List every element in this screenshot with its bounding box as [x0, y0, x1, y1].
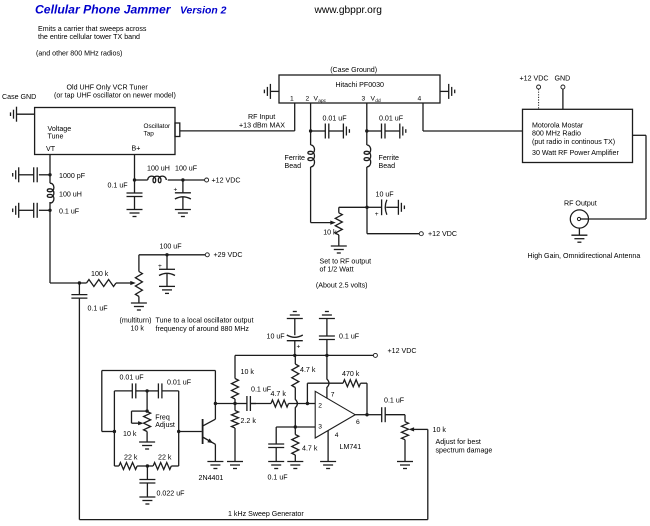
label Freq Adjust [155, 414, 175, 430]
svg-text:22 k: 22 k [124, 453, 138, 461]
svg-text:Case GND: Case GND [2, 93, 36, 101]
label 0.1 uF coupling [251, 385, 272, 393]
node: inverting input junction [306, 402, 309, 405]
annotation: Adjust for best spectrum damage [436, 438, 493, 455]
svg-text:Tune to a local oscillator out: Tune to a local oscillator output [156, 316, 254, 324]
wire: VT line down to tuning node [50, 210, 79, 283]
svg-text:Emits a carrier that sweeps ac: Emits a carrier that sweeps across [38, 25, 147, 33]
resistor 22 k left [114, 453, 147, 469]
svg-text:the entire cellular tower TX b: the entire cellular tower TX band [38, 33, 140, 41]
svg-text:10 k: 10 k [123, 430, 137, 438]
ground above 0.1uF sweep [319, 312, 335, 319]
ground below pin 4 [320, 462, 336, 469]
terminal +12 VDC at B+ [205, 176, 241, 184]
svg-text:frequency of around 880 MHz: frequency of around 880 MHz [156, 325, 250, 333]
amplifier block Motorola Mostar [523, 109, 633, 162]
svg-text:6: 6 [356, 419, 360, 426]
wire: oscillator inner left vertical [113, 391, 115, 466]
svg-text:spectrum damage: spectrum damage [436, 446, 493, 454]
svg-text:0.01 uF: 0.01 uF [379, 114, 404, 122]
capacitor 0.1 uF sweep bypass [319, 319, 335, 356]
svg-text:Old UHF Only VCR Tuner: Old UHF Only VCR Tuner [67, 83, 149, 91]
wire: base tap to transistor base [179, 431, 202, 433]
svg-text:1000 pF: 1000 pF [59, 172, 86, 180]
node: VT / 1000 pF junction [48, 173, 51, 176]
label 0.01 uF first [120, 373, 145, 381]
label (Case Ground) [330, 66, 377, 74]
svg-text:+12 VDC: +12 VDC [428, 230, 457, 238]
title text: Version 2 [180, 6, 227, 17]
wire: B+ pin down [134, 155, 136, 181]
VCR tuner box U1 [35, 108, 175, 155]
capacitor 0.01 uF at pin 2 [311, 114, 350, 138]
label Case GND [2, 93, 36, 101]
svg-text:of 1/2 Watt: of 1/2 Watt [320, 265, 354, 273]
svg-text:4: 4 [335, 432, 339, 439]
wire: to output pot top [404, 415, 406, 422]
wire: sweep feedback bottom run [79, 519, 427, 521]
svg-text:100 uF: 100 uF [175, 164, 198, 172]
transistor Q1 2N4401 [199, 404, 224, 482]
label RF Output [564, 199, 597, 207]
wire: amplifier output to RF connector [588, 135, 646, 219]
svg-text:High Gain, Omnidirectional Ant: High Gain, Omnidirectional Antenna [528, 252, 641, 260]
description text line 3 [36, 50, 122, 58]
wire: op-amp output [355, 414, 367, 416]
capacitor 1000 pF to case [13, 167, 86, 182]
emitter arrow of Q1 [207, 439, 213, 444]
terminal GND amplifier [561, 85, 565, 109]
label 10 k freq pot [123, 430, 137, 438]
svg-text:+13 dBm MAX: +13 dBm MAX [239, 121, 285, 129]
arrow into multiturn pot [130, 281, 136, 285]
wire: collector to top loop [214, 371, 216, 404]
node: oscillator left feedback tap [113, 430, 116, 433]
svg-text:GND: GND [555, 75, 571, 83]
svg-text:Version 2: Version 2 [180, 6, 227, 17]
svg-text:(or tap UHF oscillator on newe: (or tap UHF oscillator on newer model) [54, 92, 176, 100]
node: tuning voltage node [78, 281, 81, 284]
label High Gain, Omnidirectional Antenna [528, 252, 641, 260]
svg-text:Adjust: Adjust [155, 421, 175, 429]
arrow into Vapc pot [330, 221, 336, 225]
node: freq pot top [145, 409, 148, 412]
terminal +12 VDC amplifier [537, 85, 541, 109]
wire: PF0030 pin 4 to amplifier [423, 103, 523, 131]
capacitor 10 uF electrolytic sweep bypass [287, 319, 303, 356]
wire: oscillator inner right vertical [178, 391, 180, 466]
svg-text:Bead: Bead [379, 162, 396, 170]
svg-text:dd: dd [375, 98, 381, 104]
wire: coil to 0.1uF junction [49, 202, 51, 210]
wire: cap node down to freq pot [146, 391, 148, 411]
node: pin 2 junction [309, 129, 312, 132]
arrow into freq pot [138, 421, 144, 425]
svg-text:Oscillator: Oscillator [144, 123, 172, 130]
svg-text:Bead: Bead [285, 162, 302, 170]
resistor 2.2 k [232, 404, 257, 462]
annotation: Tune to a local oscillator output [156, 316, 254, 333]
svg-text:Hitachi PF0030: Hitachi PF0030 [336, 81, 385, 89]
label GND at amplifier [555, 75, 571, 83]
svg-text:0.1 uF: 0.1 uF [108, 181, 129, 189]
svg-text:1 kHz Sweep Generator: 1 kHz Sweep Generator [228, 510, 304, 518]
label RF Input +13 dBm MAX [239, 113, 285, 129]
svg-text:0.01 uF: 0.01 uF [120, 373, 145, 381]
svg-text:2: 2 [318, 403, 322, 410]
svg-text:2.2 k: 2.2 k [241, 417, 257, 425]
potentiometer 10 k multiturn [135, 272, 142, 297]
svg-text:apc: apc [318, 99, 326, 104]
svg-text:10 uF: 10 uF [376, 190, 395, 198]
svg-text:0.022 uF: 0.022 uF [157, 489, 186, 497]
svg-text:0.1 uF: 0.1 uF [268, 473, 289, 481]
terminal +12 VDC for Vapc [419, 230, 457, 238]
capacitor 10 uF electrolytic to case [367, 190, 404, 218]
svg-text:Set to RF output: Set to RF output [320, 257, 372, 265]
svg-text:Tune: Tune [48, 133, 64, 141]
svg-text:www.gbppr.org: www.gbppr.org [314, 5, 383, 16]
wire: coil to 100uF node [168, 179, 183, 181]
node: 22k junction [146, 464, 149, 467]
case capacitor at PF0030 right [440, 84, 455, 99]
svg-text:3: 3 [362, 95, 366, 102]
inductor 100 uH in VT line [47, 183, 82, 203]
svg-text:10 uF: 10 uF [267, 333, 286, 341]
capacitor 100 uF electrolytic at B+ [174, 164, 198, 209]
svg-text:LM741: LM741 [340, 443, 362, 451]
svg-text:(multiturn): (multiturn) [120, 316, 152, 324]
svg-text:30 Watt RF Power Amplifier: 30 Watt RF Power Amplifier [532, 149, 619, 157]
wire: op-amp pin 3 input [276, 426, 315, 428]
capacitor 0.01 uF at pin 3 [367, 114, 406, 138]
svg-text:4: 4 [418, 95, 422, 102]
svg-text:4.7 k: 4.7 k [271, 390, 287, 398]
capacitor 100 uF electrolytic at +29 [158, 255, 175, 287]
node: base tap on right vertical [177, 430, 180, 433]
ground below Vapc pot [331, 246, 347, 253]
description text line 1 [38, 25, 147, 33]
svg-text:4.7 k: 4.7 k [300, 366, 316, 374]
svg-text:22 k: 22 k [158, 453, 172, 461]
wire: pin 4 to ground [327, 431, 329, 462]
wire: Vapc pot bottom to ground [338, 235, 340, 246]
op-amp U3 LM741 [315, 391, 361, 451]
svg-text:(put radio in continous TX): (put radio in continous TX) [532, 138, 615, 146]
node: B+ / 0.1uF junction [133, 178, 136, 181]
wire: bead to Vapc pot wiper arrow [311, 222, 332, 224]
svg-text:+12 VDC: +12 VDC [212, 176, 241, 184]
resistor 4.7 k upper divider [292, 355, 316, 387]
capacitor 0.1 uF sweep coupling [71, 283, 108, 520]
ground below spectrum pot [397, 462, 413, 469]
svg-text:0.01 uF: 0.01 uF [323, 114, 348, 122]
svg-text:10 k: 10 k [433, 426, 447, 434]
svg-text:(About 2.5 volts): (About 2.5 volts) [316, 282, 368, 290]
ground below +29 100uF [159, 286, 175, 293]
label 100 uF at +29 [160, 242, 183, 250]
capacitor 0.1 uF at B+ [127, 180, 143, 210]
ground above 10uF sweep [287, 312, 303, 319]
oscillator tap tab [175, 123, 180, 137]
capacitor 0.1 uF pin3 bypass [268, 427, 289, 481]
svg-text:RF Input: RF Input [248, 113, 275, 121]
label 10 uF sweep [267, 333, 286, 341]
label 1 kHz Sweep Generator [228, 510, 304, 518]
resistor 470 k feedback [342, 370, 367, 387]
svg-text:100 uF: 100 uF [160, 242, 183, 250]
svg-text:10 k: 10 k [241, 368, 255, 376]
node: divider to pin 3 [294, 425, 297, 428]
svg-text:10 k: 10 k [131, 324, 145, 332]
label 0.01 uF second [167, 378, 192, 386]
capacitor 0.022 uF [139, 466, 185, 497]
case bypass capacitor at tuner left [11, 107, 35, 122]
svg-text:Motorola Mostar: Motorola Mostar [532, 122, 584, 130]
node: output junction [365, 413, 368, 416]
description text line 2 [38, 33, 140, 41]
wire: spectrum pot wiper to feedback riser [413, 428, 428, 430]
svg-text:(Case Ground): (Case Ground) [330, 66, 377, 74]
svg-text:+: + [297, 343, 301, 350]
node: 100uF/+29 junction [165, 253, 168, 256]
label 0.1 uF at B+ [108, 181, 129, 189]
wire: feedback down to output [366, 383, 368, 415]
svg-text:470 k: 470 k [342, 370, 360, 378]
terminal +29 VDC [205, 251, 242, 259]
svg-text:+12 VDC: +12 VDC [388, 347, 417, 355]
svg-text:0.1 uF: 0.1 uF [339, 333, 360, 341]
potentiometer 10 k Freq Adjust [132, 411, 151, 442]
wire: oscillator tap to PF0030 pin 1 [180, 130, 295, 132]
svg-text:Ferrite: Ferrite [379, 154, 400, 162]
resistor 22 k right [147, 453, 178, 469]
annotation: Set to RF output [320, 257, 372, 273]
wire: pin 7 supply with hop over feedback [327, 355, 329, 398]
ground below pin3 bypass [268, 462, 284, 469]
svg-text:Adjust for best: Adjust for best [436, 438, 481, 446]
capacitor 0.1 uF output coupling [367, 407, 405, 422]
ferrite bead at pin 3 [364, 131, 399, 207]
case capacitor at PF0030 left [264, 84, 279, 99]
resistor 100 k [79, 270, 131, 287]
node: between caps [145, 389, 148, 392]
svg-text:B+: B+ [132, 145, 141, 153]
svg-text:+29 VDC: +29 VDC [214, 251, 243, 259]
wire: junction down to +12 VDC terminal [367, 207, 419, 233]
wire: oscillator top feedback loop [102, 371, 216, 432]
ground below multiturn pot [131, 303, 147, 310]
node: 100uF junction at B+ [181, 178, 184, 181]
label 0.1 uF sweep bypass [339, 333, 360, 341]
resistor 10 k collector load [232, 355, 255, 403]
svg-text:RF Output: RF Output [564, 199, 597, 207]
label +12 VDC at amplifier [520, 75, 549, 83]
node: rail 10uF junction [293, 354, 296, 357]
svg-text:100 uH: 100 uH [59, 190, 82, 198]
svg-text:0.1 uF: 0.1 uF [384, 397, 405, 405]
svg-text:800 MHz Radio: 800 MHz Radio [532, 130, 581, 138]
resistor 4.7 k lower divider [292, 427, 318, 462]
VCR tuner box label [54, 83, 176, 99]
svg-text:1: 1 [290, 95, 294, 102]
title text: Cellular Phone Jammer [35, 3, 172, 17]
ground below 2.2k [227, 462, 243, 469]
wire: PF0030 pin 2 down [310, 103, 312, 131]
potentiometer 10 k spectrum [402, 422, 447, 462]
ground below Q1 emitter [207, 462, 223, 469]
wire: multiturn pot bottom to ground [138, 296, 140, 303]
svg-text:+: + [174, 186, 178, 193]
svg-text:+: + [375, 211, 379, 218]
wire: VT junction to coil [49, 175, 51, 183]
capacitor 0.01 uF C2 [147, 383, 179, 398]
svg-text:2: 2 [306, 95, 310, 102]
label 4.7 k series [271, 390, 287, 398]
ground below lower 4.7k [287, 462, 303, 469]
node: Vapc supply junction [365, 206, 368, 209]
wire to +12 VDC terminal at B+ [183, 179, 205, 181]
node: pin 3 junction [365, 129, 368, 132]
svg-text:Tap: Tap [144, 131, 155, 138]
svg-text:100 uH: 100 uH [147, 164, 170, 172]
svg-text:(and other 800 MHz radios): (and other 800 MHz radios) [36, 50, 122, 58]
wire: Vapc pot top to +12 node [339, 207, 367, 213]
svg-text:3: 3 [318, 424, 322, 431]
wire: VT pin down [49, 155, 51, 175]
terminal +12 VDC sweep [373, 347, 416, 358]
svg-text:Cellular Phone Jammer: Cellular Phone Jammer [35, 3, 172, 17]
svg-text:+: + [158, 263, 162, 270]
svg-text:Ferrite: Ferrite [285, 154, 306, 162]
text: www.gbppr.org [314, 5, 383, 16]
ground below freq pot [139, 442, 155, 449]
wire: PF0030 pin 3 down [366, 103, 368, 131]
annotation: About 2.5 volts [316, 282, 368, 290]
svg-text:4.7 k: 4.7 k [302, 444, 318, 452]
wire: sweep +12 rail [235, 354, 373, 356]
wire: junction to op-amp pin 2 [307, 403, 315, 405]
node: 10k/2.2k junction [233, 402, 236, 405]
wire: PF0030 pin 1 down to RF input wire [294, 103, 296, 131]
ground below B+ 0.1uF [127, 210, 143, 217]
node: rail 0.1uF junction [325, 354, 328, 357]
capacitor 0.1 uF to case on VT line [13, 203, 80, 218]
wire: feedback from pin 2 up [307, 383, 343, 403]
svg-text:2N4401: 2N4401 [199, 474, 224, 482]
capacitor 0.01 uF C1 [114, 383, 147, 398]
ferrite bead at pin 2 [285, 131, 315, 223]
svg-text:100 k: 100 k [91, 270, 109, 278]
inductor 100 uH at B+ [135, 164, 170, 182]
svg-text:0.1 uF: 0.1 uF [88, 304, 109, 312]
ground below RF connector [571, 228, 587, 242]
hybrid amplifier U2 Hitachi PF0030 [279, 75, 440, 104]
wire: multiturn pot top to +29 node [139, 255, 205, 272]
arrow into spectrum pot [409, 427, 415, 431]
svg-text:0.1 uF: 0.1 uF [251, 385, 272, 393]
wire: sweep feedback riser [427, 429, 429, 519]
svg-text:7: 7 [331, 391, 335, 398]
svg-text:+12 VDC: +12 VDC [520, 75, 549, 83]
RF output connector J1 [570, 210, 588, 228]
svg-text:VT: VT [46, 145, 56, 153]
svg-text:0.01 uF: 0.01 uF [167, 378, 192, 386]
ground below 0.022uF [139, 497, 155, 504]
node: 0.1 uF junction on VT line [48, 209, 51, 212]
capacitor 0.1 uF coupling to op-amp [235, 396, 256, 411]
ground below B+ 100uF [175, 210, 191, 217]
svg-text:0.1 uF: 0.1 uF [59, 207, 80, 215]
label (multiturn) 10 k [120, 316, 152, 332]
wire: collector to divider [215, 403, 235, 405]
wire: divider vertical with hop over pin2 wire [295, 388, 297, 428]
svg-text:10 k: 10 k [323, 228, 337, 236]
node: Q1 collector [214, 402, 217, 405]
resistor 4.7 k series input [250, 400, 307, 407]
label 0.1 uF output [384, 397, 405, 405]
potentiometer 10 k Vapc [323, 213, 342, 237]
